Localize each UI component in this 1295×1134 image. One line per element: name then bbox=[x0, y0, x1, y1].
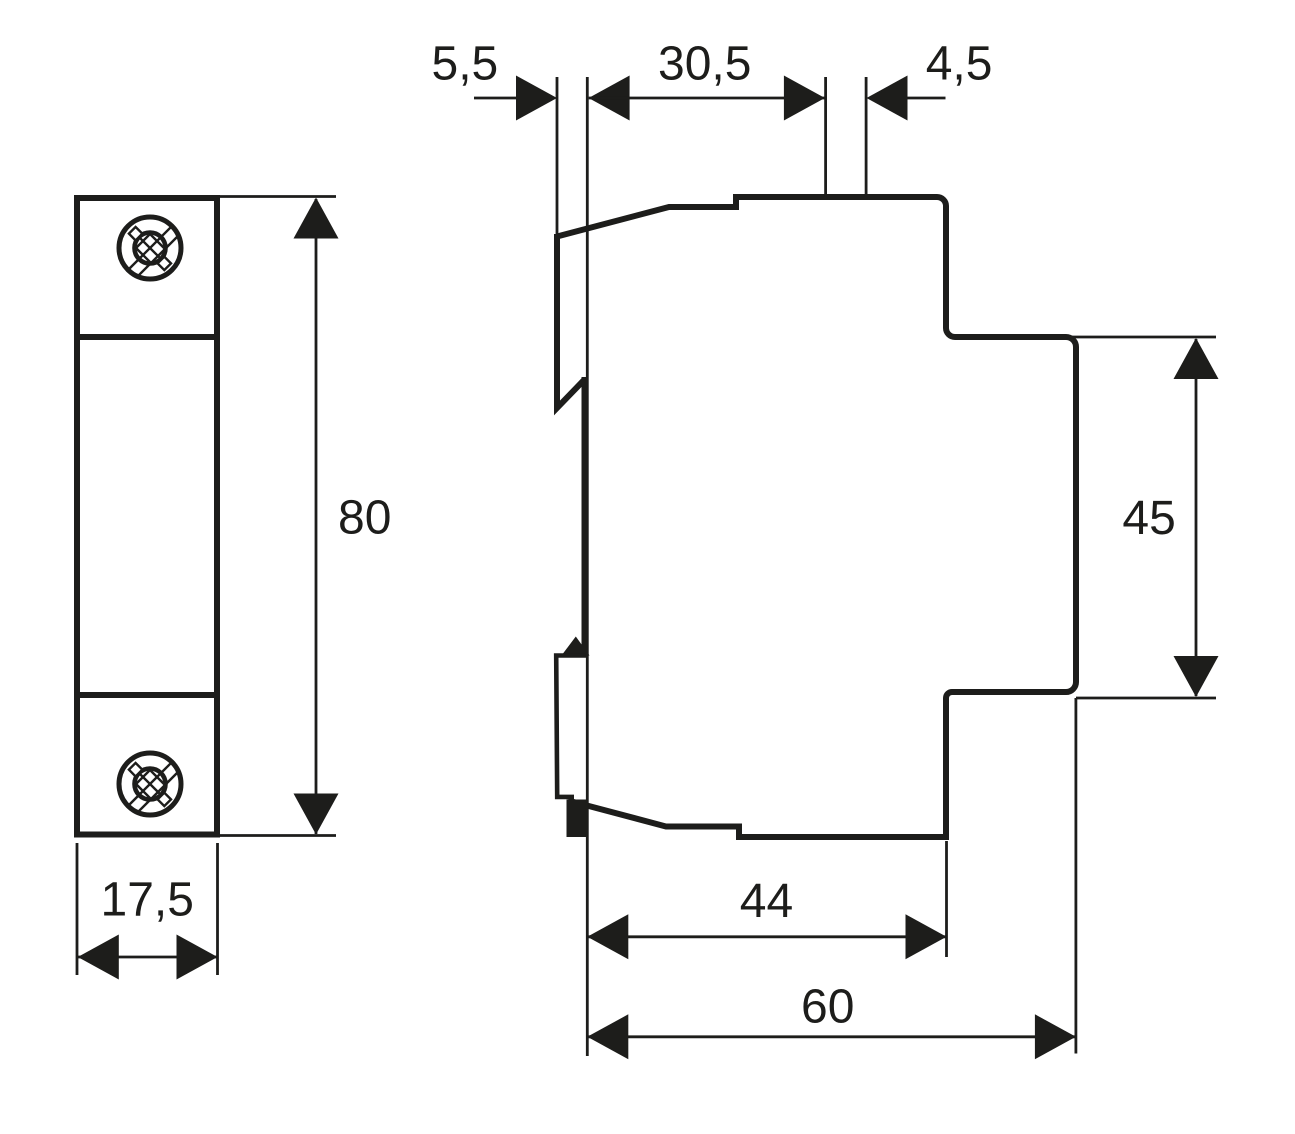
dim 44 right arrow bbox=[906, 914, 947, 959]
dim 5,5 right arrow / 30,5 left arrow bbox=[589, 76, 630, 121]
dim 80 down arrow bbox=[294, 794, 339, 835]
dim 17,5 shaft bbox=[77, 956, 218, 959]
side view clip tab black rectangle bbox=[567, 800, 587, 838]
front view upper divider line bbox=[74, 334, 220, 340]
dim 44 left arrow bbox=[587, 914, 628, 959]
svg-text:45: 45 bbox=[1122, 492, 1175, 545]
top dim extension line 2 (body face, also 44/60 left) bbox=[586, 77, 589, 1056]
dim 4,5 tail line bbox=[906, 97, 946, 100]
top dim extension line 3 bbox=[824, 77, 827, 197]
dim 80 up arrow bbox=[294, 198, 339, 239]
dim 30,5 shaft bbox=[589, 97, 825, 100]
screw bottom: cross hatch bbox=[110, 744, 190, 824]
dim 45 down arrow bbox=[1174, 656, 1219, 697]
svg-text:4,5: 4,5 bbox=[926, 38, 993, 91]
dim 60 left arrow bbox=[587, 1014, 628, 1059]
dim 30,5 right arrow bbox=[784, 76, 825, 121]
svg-text:60: 60 bbox=[801, 980, 854, 1033]
side view clip latch triangle bbox=[562, 637, 590, 656]
screw bottom: slot band bbox=[108, 744, 200, 831]
screw top: inner circle bbox=[135, 233, 166, 264]
svg-text:80: 80 bbox=[338, 492, 391, 545]
svg-text:5,5: 5,5 bbox=[432, 38, 499, 91]
screw top: slot end squares bbox=[129, 227, 142, 240]
screw top: slot band bbox=[108, 208, 200, 295]
screw top: cross hatch bbox=[110, 208, 190, 288]
dim 80 extension bottom bbox=[219, 834, 336, 837]
dim 60 extension right bbox=[1075, 698, 1078, 1054]
svg-text:44: 44 bbox=[740, 875, 793, 928]
front view body rectangle bbox=[77, 198, 217, 835]
dim 60 shaft bbox=[587, 1035, 1076, 1038]
dim 44 extension right bbox=[945, 841, 948, 957]
dim 5,5 left arrow bbox=[516, 76, 557, 121]
screw bottom: inner circle bbox=[135, 769, 166, 800]
dim 45 up arrow bbox=[1174, 338, 1219, 379]
top dim extension line 1 (clip face) bbox=[556, 77, 559, 236]
screw top: outer circle bbox=[119, 217, 181, 279]
dim 45 extension top bbox=[1066, 336, 1216, 339]
screw bottom: slot end squares bbox=[129, 763, 142, 776]
dim 80 line bbox=[315, 199, 318, 834]
svg-text:17,5: 17,5 bbox=[101, 874, 194, 927]
dim 17,5 left arrow bbox=[78, 935, 119, 980]
dim 44 shaft bbox=[587, 935, 946, 938]
dim 45 extension bottom bbox=[1076, 697, 1216, 700]
side view main outline bbox=[557, 197, 1076, 837]
dim 17,5 right arrow bbox=[177, 935, 218, 980]
dim 17,5 extension right bbox=[216, 843, 219, 975]
dim 5,5 tail line bbox=[474, 97, 517, 100]
side view left clip edge upper bbox=[557, 234, 585, 408]
dim 17,5 extension left bbox=[76, 843, 79, 975]
dim 4,5 right arrow bbox=[867, 76, 908, 121]
top dim extension line 4 bbox=[865, 77, 868, 197]
dim 80 extension top bbox=[219, 195, 336, 198]
front view lower divider line bbox=[74, 692, 220, 698]
dim 45 line bbox=[1195, 339, 1198, 696]
dim 60 right arrow bbox=[1035, 1014, 1076, 1059]
side view clip outline bbox=[556, 656, 588, 797]
side view left body face line bbox=[582, 377, 588, 651]
svg-text:30,5: 30,5 bbox=[658, 38, 751, 91]
screw bottom: outer circle bbox=[119, 753, 181, 815]
